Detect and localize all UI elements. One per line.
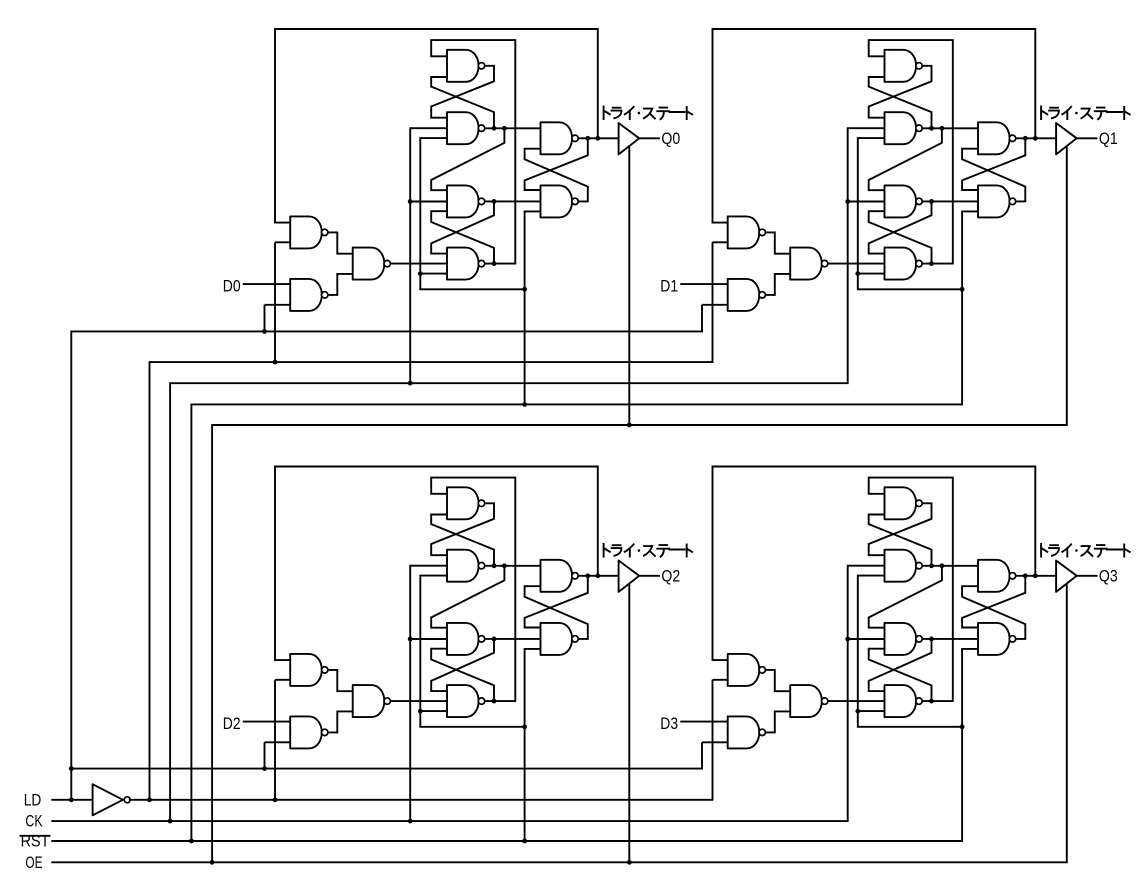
wire+bus: lower LD bus (cell3 gateB) bbox=[71, 742, 702, 768]
wire+bus: LDbar net upper row (riser, bus, cell1 gateA) bbox=[150, 242, 713, 800]
node bbox=[262, 329, 267, 334]
wire: cell2 gateB to lower LD bus bbox=[264, 742, 266, 768]
svg-text:Q3: Q3 bbox=[1099, 566, 1118, 585]
svg-text:D1: D1 bbox=[660, 276, 678, 295]
wire: cell0 CK drop bbox=[409, 202, 411, 384]
wire: cell2 OE drop bbox=[628, 584, 630, 862]
node bbox=[273, 360, 278, 365]
wire: cell2 CK drop bbox=[409, 639, 411, 821]
RST overline bbox=[20, 835, 51, 837]
svg-text:Q1: Q1 bbox=[1099, 129, 1118, 148]
wire: LDbar line (lower row, cell3 gateA) bbox=[129, 680, 713, 800]
node bbox=[273, 797, 278, 802]
inverter U1 (LD) bbox=[93, 784, 123, 815]
wire: LD input line bbox=[51, 799, 92, 801]
wire+bus: CK net upper row (riser, bus, cell1 CK column) bbox=[170, 202, 848, 822]
node: riser LD on lower LD bus bbox=[69, 766, 74, 771]
wire: RST input line (cell3 RST column) bbox=[51, 727, 962, 841]
wire: CK input line (cell3 CK column) bbox=[51, 639, 847, 821]
wire: cell0 RST drop bbox=[524, 289, 526, 404]
wire: cell0 OE drop bbox=[628, 147, 630, 425]
svg-text:Q2: Q2 bbox=[661, 566, 680, 585]
node bbox=[627, 860, 632, 865]
wire: cell0 gateB to LD bus bbox=[264, 305, 266, 332]
svg-text:CK: CK bbox=[25, 812, 43, 831]
node bbox=[408, 819, 413, 824]
svg-text:LD: LD bbox=[24, 790, 42, 809]
register cell bit2 bbox=[243, 467, 692, 749]
node bbox=[522, 839, 527, 844]
wire+bus: OE net upper row (riser, bus, cell1 buffer enable) bbox=[212, 147, 1067, 863]
svg-text:RST: RST bbox=[21, 832, 50, 851]
wire+bus: RST net upper row (riser, bus, cell1 RST column) bbox=[191, 289, 962, 841]
register cell bit3 bbox=[680, 467, 1129, 749]
node bbox=[262, 766, 267, 771]
svg-text:D2: D2 bbox=[223, 714, 241, 733]
node bbox=[522, 402, 527, 407]
wire: cell2 RST drop bbox=[524, 727, 526, 841]
svg-text:D0: D0 bbox=[223, 276, 241, 295]
register cell bit0 bbox=[243, 29, 692, 311]
node: riser LD on LD input line bbox=[69, 797, 74, 802]
wire+bus: LD net upper row (riser, bus, cell1 gateB) bbox=[71, 305, 702, 800]
register cell bit1 bbox=[680, 29, 1129, 311]
node: riser CK joins CK line bbox=[168, 819, 173, 824]
wire: cell2 gateA to LDbar line bbox=[274, 680, 276, 800]
wire: OE input line (cell3 buffer enable) bbox=[51, 584, 1067, 862]
node bbox=[627, 423, 632, 428]
svg-text:OE: OE bbox=[25, 853, 42, 872]
node: riser RST joins RST line bbox=[189, 839, 194, 844]
node: riser OE joins OE line bbox=[210, 860, 215, 865]
node bbox=[408, 381, 413, 386]
svg-text:Q0: Q0 bbox=[661, 129, 680, 148]
svg-text:D3: D3 bbox=[660, 714, 678, 733]
wire: cell0 gateA to LDbar bus bbox=[274, 242, 276, 362]
node: riser LDbar joins LDbar line bbox=[147, 797, 152, 802]
